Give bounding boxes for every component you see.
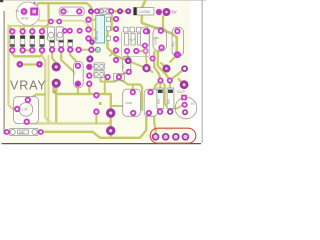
svg-text:CA4558: CA4558 [139, 10, 151, 14]
svg-text:500k: 500k [126, 101, 133, 105]
svg-text:47uF: 47uF [21, 16, 29, 20]
svg-text:IN: IN [53, 90, 57, 94]
svg-text:1.0k: 1.0k [22, 108, 28, 112]
svg-text:LED+ -: LED+ - [61, 10, 73, 14]
svg-text:47u: 47u [122, 64, 126, 69]
svg-text:1885: 1885 [19, 130, 25, 134]
svg-text:5V: 5V [172, 9, 177, 14]
svg-text:VRAY: VRAY [10, 78, 47, 92]
svg-text:BC: BC [191, 102, 195, 106]
svg-text:BD139: BD139 [95, 30, 99, 40]
svg-text:1004: 1004 [101, 10, 108, 14]
svg-text:+12V: +12V [129, 38, 136, 42]
svg-text:47u: 47u [72, 71, 76, 76]
svg-text:1000u: 1000u [154, 36, 158, 45]
svg-text:OUT: OUT [177, 89, 186, 94]
svg-text:1k8: 1k8 [157, 99, 161, 104]
svg-text:47u: 47u [172, 42, 176, 47]
svg-text:GND: GND [166, 127, 172, 131]
svg-text:1k8: 1k8 [167, 99, 171, 104]
